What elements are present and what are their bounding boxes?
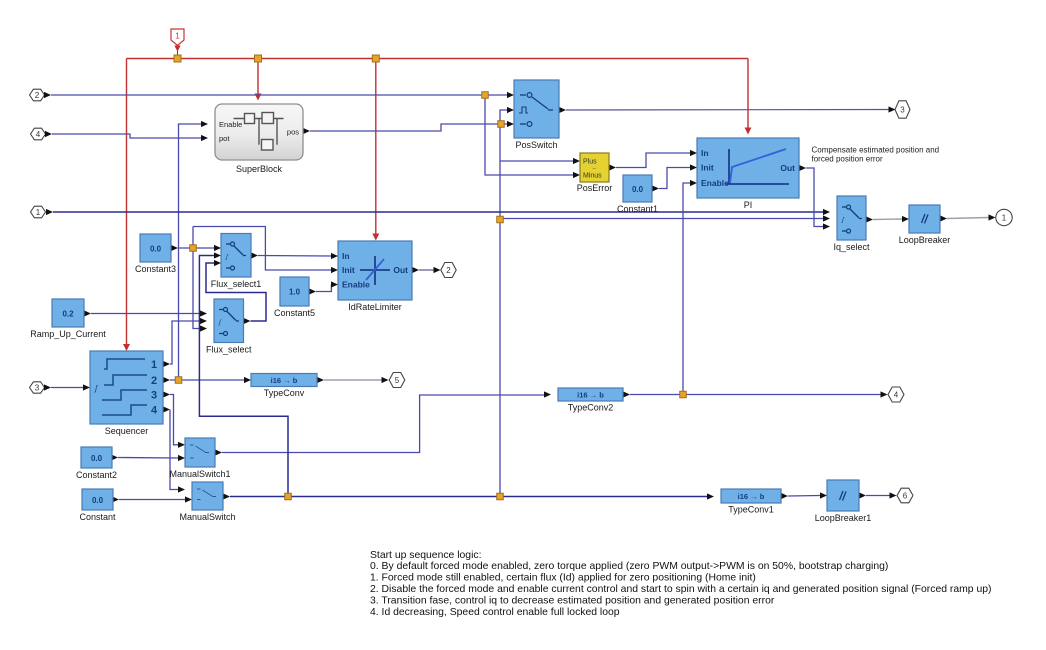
svg-text:3: 3 [35,383,40,392]
svg-text:PI: PI [744,200,753,210]
svg-text:pot: pot [219,134,230,143]
svg-text:0. By default forced mode enab: 0. By default forced mode enabled, zero … [370,561,888,572]
svg-text:Constant: Constant [79,512,116,522]
svg-text:4: 4 [151,405,158,417]
svg-text:3: 3 [900,105,905,114]
svg-text:2: 2 [151,375,157,387]
svg-text:Out: Out [393,265,408,275]
svg-text:pos: pos [287,128,299,137]
svg-text:0.0: 0.0 [150,245,162,254]
svg-text:TypeConv: TypeConv [264,388,305,398]
svg-text:6: 6 [903,491,908,500]
svg-text:0.2: 0.2 [62,310,74,319]
svg-text:i16 → b: i16 → b [577,391,604,400]
svg-text:Minus: Minus [583,173,602,180]
svg-text:Out: Out [780,163,795,173]
svg-text:1: 1 [36,208,41,217]
svg-text:LoopBreaker: LoopBreaker [899,235,951,245]
svg-text:−: − [592,167,596,173]
svg-text:Compensate estimated position: Compensate estimated position and [812,145,940,154]
svg-text:1.0: 1.0 [289,288,301,297]
svg-text:Init: Init [342,265,355,275]
svg-text:Constant3: Constant3 [135,264,176,274]
svg-text:Init: Init [701,163,714,173]
svg-text:4. Id decreasing, Speed contro: 4. Id decreasing, Speed control enable f… [370,607,620,618]
svg-text:PosSwitch: PosSwitch [515,140,557,150]
svg-text:In: In [701,148,709,158]
svg-text:5: 5 [395,376,400,385]
svg-text:1: 1 [175,32,180,41]
svg-text:TypeConv2: TypeConv2 [568,403,614,413]
svg-text:Iq_select: Iq_select [833,242,870,252]
svg-text:Plus: Plus [583,159,597,166]
svg-text:4: 4 [36,130,41,139]
svg-text:In: In [342,251,350,261]
svg-text:2: 2 [446,266,451,275]
svg-text:i16 → b: i16 → b [271,376,298,385]
svg-text:2: 2 [35,91,40,100]
svg-text:Flux_select1: Flux_select1 [211,279,262,289]
svg-text:0.0: 0.0 [91,454,103,463]
svg-text:PosError: PosError [577,183,613,193]
svg-text:TypeConv1: TypeConv1 [728,505,774,515]
svg-text:Flux_select: Flux_select [206,345,252,355]
svg-text:Constant1: Constant1 [617,204,658,214]
svg-text:1: 1 [1002,214,1007,223]
svg-text:LoopBreaker1: LoopBreaker1 [815,513,872,523]
svg-text:IdRateLimiter: IdRateLimiter [348,302,402,312]
svg-text:2. Disable the forced mode and: 2. Disable the forced mode and enable cu… [370,584,992,595]
svg-text:3. Transition fase, control iq: 3. Transition fase, control iq to decrea… [370,596,775,607]
svg-text:i16 → b: i16 → b [738,492,765,501]
svg-text:Enable: Enable [342,280,370,290]
svg-text:Enable: Enable [701,178,729,188]
svg-text:4: 4 [894,390,899,399]
svg-text:forced position error: forced position error [812,155,883,164]
svg-text:Sequencer: Sequencer [105,426,149,436]
svg-text:ManualSwitch1: ManualSwitch1 [169,469,230,479]
svg-text:Enable: Enable [219,120,242,129]
svg-text:0.0: 0.0 [92,496,104,505]
svg-text:Constant5: Constant5 [274,308,315,318]
svg-text:1. Forced mode still enabled,: 1. Forced mode still enabled, certain fl… [370,573,756,584]
svg-text:0.0: 0.0 [632,185,644,194]
svg-text:Ramp_Up_Current: Ramp_Up_Current [30,329,106,339]
svg-text:ManualSwitch: ManualSwitch [179,512,235,522]
svg-text:SuperBlock: SuperBlock [236,164,283,174]
svg-text:3: 3 [151,390,157,402]
svg-text:1: 1 [151,359,157,371]
svg-text:Start up sequence logic:: Start up sequence logic: [370,550,481,561]
svg-text:Constant2: Constant2 [76,470,117,480]
